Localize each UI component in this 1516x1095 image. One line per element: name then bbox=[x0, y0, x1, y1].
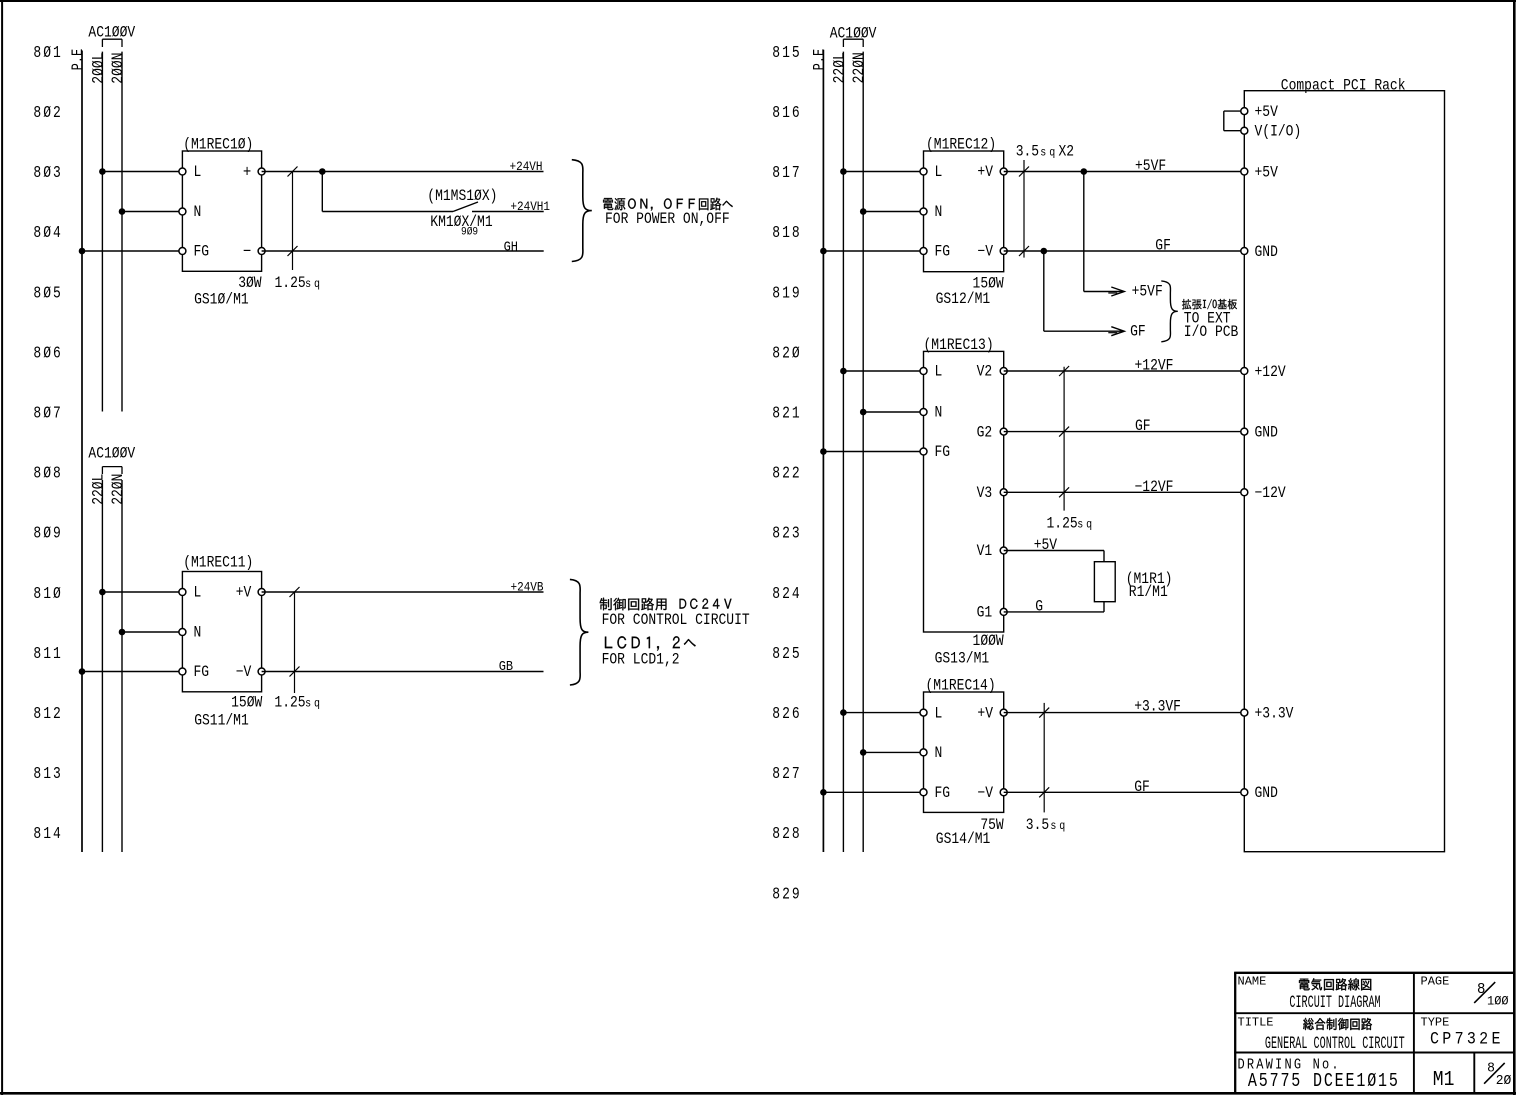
svg-text:sq: sq bbox=[305, 278, 323, 291]
svg-text:−12V: −12V bbox=[1255, 485, 1287, 502]
arrow +5VF to ext I/O bbox=[1084, 291, 1124, 293]
svg-text:+3.3V: +3.3V bbox=[1255, 705, 1294, 722]
brace power on/off bbox=[572, 160, 592, 262]
wire +5VF bbox=[1004, 171, 1245, 173]
wire FG M1REC13 bbox=[823, 451, 923, 453]
svg-text:GENERAL CONTROL CIRCUIT: GENERAL CONTROL CIRCUIT bbox=[1265, 1034, 1405, 1054]
svg-text:82Ø: 82Ø bbox=[772, 345, 801, 363]
resistor R1 body bbox=[1094, 562, 1115, 602]
terminal rack +5V bbox=[1241, 168, 1248, 175]
svg-text:PAGE: PAGE bbox=[1421, 975, 1450, 989]
wire +3.3VF bbox=[1004, 712, 1245, 714]
wire bus 200N bbox=[121, 52, 123, 412]
svg-text:GND: GND bbox=[1255, 424, 1278, 441]
terminal FG M1REC14 bbox=[920, 789, 927, 796]
svg-text:811: 811 bbox=[33, 646, 62, 664]
junction P.E-FG REC14 bbox=[820, 789, 827, 796]
rectifier GS14/M1 box bbox=[924, 692, 1004, 812]
terminal FG M1REC10 bbox=[179, 248, 186, 255]
terminal rack +5V (top) bbox=[1241, 108, 1248, 115]
terminal rack +3.3V bbox=[1241, 709, 1248, 716]
svg-text:AC1ØØV: AC1ØØV bbox=[88, 446, 135, 463]
junction 220N-N REC13 bbox=[860, 409, 867, 416]
wire FG M1REC10 bbox=[82, 250, 182, 252]
terminal rack GND (821) bbox=[1241, 428, 1248, 435]
terminal rack -12V bbox=[1241, 489, 1248, 496]
svg-text:+: + bbox=[243, 162, 251, 182]
wire bus P.E (left) bbox=[81, 51, 83, 853]
junction 200L-L bbox=[99, 168, 106, 175]
cable size line 1.25sq M1REC11 bbox=[290, 587, 300, 693]
wire L M1REC10 bbox=[102, 171, 182, 173]
svg-text:8Ø9: 8Ø9 bbox=[33, 526, 62, 544]
svg-text:819: 819 bbox=[772, 285, 801, 303]
svg-text:+24VH: +24VH bbox=[510, 159, 543, 174]
wire N M1REC14 bbox=[863, 751, 923, 753]
junction 220L-L REC14 bbox=[840, 709, 847, 716]
annotation JP DC24V bbox=[680, 599, 732, 609]
title JP circuit diagram name bbox=[1299, 978, 1371, 990]
svg-text:R1/M1: R1/M1 bbox=[1129, 584, 1168, 601]
svg-text:GF: GF bbox=[1130, 323, 1146, 340]
svg-text:+V: +V bbox=[977, 705, 993, 722]
svg-text:Compact PCI Rack: Compact PCI Rack bbox=[1281, 77, 1406, 94]
svg-text:FOR POWER ON,OFF: FOR POWER ON,OFF bbox=[605, 211, 730, 228]
svg-text:8Ø8: 8Ø8 bbox=[33, 465, 62, 483]
wire GF branch down bbox=[1043, 251, 1045, 331]
svg-text:N: N bbox=[194, 625, 202, 642]
svg-text:814: 814 bbox=[33, 826, 62, 844]
svg-text:TITLE: TITLE bbox=[1238, 1015, 1274, 1029]
wire +12VF bbox=[1004, 370, 1245, 372]
svg-text:L: L bbox=[935, 364, 943, 381]
wire GF row818 bbox=[1004, 250, 1245, 252]
cable size line 1.25sq M1REC10 bbox=[288, 167, 298, 271]
wire GB bbox=[262, 671, 544, 673]
svg-text:824: 824 bbox=[772, 586, 801, 604]
svg-text:818: 818 bbox=[772, 225, 801, 243]
junction P.E-FG REC13 bbox=[820, 448, 827, 455]
svg-text:FG: FG bbox=[194, 664, 210, 681]
jumper +5V to V(I/O) bbox=[1224, 111, 1245, 131]
svg-text:GH: GH bbox=[504, 239, 518, 255]
junction 220L-L REC13 bbox=[840, 368, 847, 375]
annotation JP control circuit DC24V bbox=[600, 598, 667, 611]
svg-text:8Ø3: 8Ø3 bbox=[33, 165, 62, 183]
svg-text:+5V: +5V bbox=[1255, 164, 1279, 181]
terminal L M1REC13 bbox=[920, 368, 927, 375]
svg-text:GF: GF bbox=[1135, 418, 1151, 435]
junction 220N-N REC11 bbox=[119, 629, 126, 636]
svg-text:816: 816 bbox=[772, 105, 801, 123]
switch M1MS10X contact bbox=[453, 202, 478, 212]
terminal -V M1REC14 bbox=[1000, 789, 1007, 796]
svg-text:1.25: 1.25 bbox=[275, 275, 306, 292]
terminal FG M1REC13 bbox=[920, 448, 927, 455]
wire -12VF bbox=[1004, 491, 1245, 493]
wire FG M1REC11 bbox=[82, 671, 182, 673]
title JP general control circuit bbox=[1303, 1018, 1372, 1030]
svg-text:sq: sq bbox=[305, 698, 323, 711]
wire bus 220N (right) bbox=[862, 52, 864, 852]
svg-text:L: L bbox=[935, 705, 943, 722]
page fraction slash bbox=[1474, 982, 1495, 1003]
junction P.E-FG REC12 bbox=[820, 248, 827, 255]
terminal rack GND (827) bbox=[1241, 789, 1248, 796]
brace ext I/O bbox=[1161, 281, 1178, 342]
terminal L M1REC11 bbox=[179, 589, 186, 596]
wire branch down to switch bbox=[321, 172, 323, 212]
svg-text:−V: −V bbox=[236, 664, 252, 681]
svg-text:2Ø: 2Ø bbox=[1496, 1074, 1512, 1089]
cable size line 3.5sqX2 bbox=[1019, 160, 1029, 258]
svg-text:−V: −V bbox=[977, 785, 993, 802]
svg-text:sq: sq bbox=[1040, 147, 1058, 160]
title block column divider (row 3a) bbox=[1413, 1053, 1415, 1094]
wire V1 +5V bbox=[1004, 550, 1104, 552]
svg-text:8Ø5: 8Ø5 bbox=[33, 285, 62, 303]
AC100V bracket (top left) bbox=[102, 39, 122, 47]
svg-text:1.25: 1.25 bbox=[1047, 515, 1078, 532]
title block column divider (rows 1-2) bbox=[1413, 972, 1415, 1052]
wire N M1REC13 bbox=[863, 411, 923, 413]
svg-text:8Ø1: 8Ø1 bbox=[33, 45, 62, 63]
svg-text:+5V: +5V bbox=[1255, 104, 1279, 121]
terminal -V M1REC11 bbox=[258, 668, 265, 675]
svg-text:N: N bbox=[935, 745, 943, 762]
wire N M1REC10 bbox=[122, 211, 182, 213]
svg-text:822: 822 bbox=[772, 465, 801, 483]
svg-text:L: L bbox=[935, 164, 943, 181]
wire +24VH1 bbox=[472, 211, 544, 213]
junction +24VH branch bbox=[319, 168, 326, 175]
terminal V1 M1REC13 bbox=[1000, 547, 1007, 554]
svg-text:V2: V2 bbox=[977, 364, 993, 381]
svg-text:TYPE: TYPE bbox=[1421, 1015, 1450, 1029]
title block outer box bbox=[1234, 972, 1514, 1093]
svg-text:GF: GF bbox=[1134, 779, 1150, 796]
svg-text:817: 817 bbox=[772, 165, 801, 183]
svg-text:15ØW: 15ØW bbox=[231, 694, 263, 711]
svg-text:1ØØ: 1ØØ bbox=[1487, 994, 1509, 1009]
svg-text:GF: GF bbox=[1155, 238, 1171, 255]
AC100V bracket (left second) bbox=[102, 467, 122, 474]
svg-text:813: 813 bbox=[33, 766, 62, 784]
svg-text:821: 821 bbox=[772, 405, 801, 423]
svg-text:+24VH1: +24VH1 bbox=[510, 199, 550, 214]
brace control circuit bbox=[570, 579, 589, 685]
terminal V3 M1REC13 bbox=[1000, 489, 1007, 496]
wire bus 200L bbox=[101, 52, 103, 412]
sheet fraction slash bbox=[1484, 1063, 1505, 1084]
svg-text:827: 827 bbox=[772, 766, 801, 784]
svg-text:−V: −V bbox=[977, 244, 993, 261]
svg-text:GND: GND bbox=[1255, 244, 1278, 261]
wire L M1REC11 bbox=[102, 591, 182, 593]
svg-text:P.E: P.E bbox=[70, 49, 88, 71]
junction 220L-L REC11 bbox=[99, 589, 106, 596]
wire L M1REC13 bbox=[843, 370, 923, 372]
svg-text:FOR LCD1,2: FOR LCD1,2 bbox=[602, 651, 680, 668]
svg-text:3.5: 3.5 bbox=[1016, 144, 1039, 161]
svg-text:GS1Ø/M1: GS1Ø/M1 bbox=[194, 292, 249, 309]
terminal N M1REC12 bbox=[920, 208, 927, 215]
svg-text:3ØW: 3ØW bbox=[238, 275, 262, 292]
junction 220N-N REC12 bbox=[860, 208, 867, 215]
cable size line 1.25sq M1REC13 bbox=[1059, 366, 1069, 511]
junction GF branch bbox=[1041, 248, 1048, 255]
AC100V bracket (right) bbox=[843, 39, 863, 47]
svg-text:22ØL: 22ØL bbox=[831, 52, 849, 83]
junction P.E-FG bbox=[79, 248, 86, 255]
svg-text:sq: sq bbox=[1050, 820, 1068, 833]
svg-text:8Ø7: 8Ø7 bbox=[33, 405, 62, 423]
svg-text:+5VF: +5VF bbox=[1132, 284, 1163, 301]
terminal +V M1REC14 bbox=[1000, 709, 1007, 716]
terminal L M1REC12 bbox=[920, 168, 927, 175]
wire bus 220L (right) bbox=[842, 52, 844, 852]
terminal L M1REC14 bbox=[920, 709, 927, 716]
svg-text:823: 823 bbox=[772, 526, 801, 544]
svg-text:N: N bbox=[935, 405, 943, 422]
svg-text:825: 825 bbox=[772, 646, 801, 664]
wire bus 220L (left) bbox=[101, 480, 103, 852]
svg-text:N: N bbox=[935, 204, 943, 221]
svg-text:M1: M1 bbox=[1433, 1067, 1455, 1092]
svg-text:829: 829 bbox=[772, 886, 801, 904]
terminal + M1REC10 bbox=[258, 168, 265, 175]
wire +5VF branch down bbox=[1083, 172, 1085, 292]
svg-text:−: − bbox=[243, 242, 251, 262]
svg-text:L: L bbox=[194, 585, 202, 602]
svg-text:G: G bbox=[1035, 599, 1043, 616]
svg-text:+12VF: +12VF bbox=[1135, 358, 1174, 375]
terminal +V M1REC12 bbox=[1000, 168, 1007, 175]
svg-text:+24VB: +24VB bbox=[511, 579, 544, 594]
svg-text:+12V: +12V bbox=[1255, 364, 1287, 381]
terminal N M1REC10 bbox=[179, 208, 186, 215]
rectifier GS13/M1 box bbox=[924, 351, 1004, 632]
terminal FG M1REC11 bbox=[179, 668, 186, 675]
title block column divider (row 3b) bbox=[1473, 1053, 1475, 1094]
terminal N M1REC14 bbox=[920, 749, 927, 756]
svg-text:GS12/M1: GS12/M1 bbox=[936, 291, 991, 308]
svg-text:GB: GB bbox=[499, 658, 514, 674]
svg-text:81Ø: 81Ø bbox=[33, 586, 62, 604]
wire resistor bottom lead bbox=[1103, 602, 1105, 612]
svg-text:+5V: +5V bbox=[1034, 537, 1058, 554]
svg-text:8Ø4: 8Ø4 bbox=[33, 225, 62, 243]
annotation JP LCD1,2 bbox=[605, 636, 696, 650]
wire +24VH bbox=[262, 171, 544, 173]
svg-text:FG: FG bbox=[935, 785, 951, 802]
wire FG M1REC12 bbox=[823, 250, 923, 252]
junction 220N-N REC14 bbox=[860, 749, 867, 756]
svg-text:22ØN: 22ØN bbox=[110, 474, 128, 505]
svg-text:V3: V3 bbox=[977, 485, 993, 502]
terminal - M1REC10 bbox=[258, 248, 265, 255]
rectifier GS12/M1 box bbox=[924, 151, 1004, 272]
svg-text:−12VF: −12VF bbox=[1135, 479, 1174, 496]
svg-text:A5775 DCEE1Ø15: A5775 DCEE1Ø15 bbox=[1248, 1072, 1400, 1093]
svg-text:815: 815 bbox=[772, 45, 801, 63]
svg-text:G1: G1 bbox=[977, 605, 993, 622]
svg-text:sq: sq bbox=[1077, 519, 1095, 532]
svg-text:GS13/M1: GS13/M1 bbox=[935, 650, 990, 667]
terminal V2 M1REC13 bbox=[1000, 368, 1007, 375]
cable size line 3.5sq M1REC14 bbox=[1039, 703, 1049, 813]
svg-text:FG: FG bbox=[935, 444, 951, 461]
wire resistor top lead bbox=[1103, 551, 1105, 562]
svg-text:+3.3VF: +3.3VF bbox=[1134, 699, 1181, 716]
junction P.E-FG REC11 bbox=[79, 668, 86, 675]
svg-text:GS11/M1: GS11/M1 bbox=[194, 712, 249, 729]
terminal N M1REC13 bbox=[920, 409, 927, 416]
svg-text:+V: +V bbox=[977, 164, 993, 181]
svg-text:L: L bbox=[194, 164, 202, 181]
svg-text:+5VF: +5VF bbox=[1135, 158, 1166, 175]
svg-text:1ØØW: 1ØØW bbox=[973, 633, 1005, 650]
svg-text:GND: GND bbox=[1255, 785, 1278, 802]
svg-text:FG: FG bbox=[935, 244, 951, 261]
svg-text:826: 826 bbox=[772, 706, 801, 724]
svg-text:3.5: 3.5 bbox=[1026, 817, 1049, 834]
svg-text:(M1REC11): (M1REC11) bbox=[183, 554, 253, 571]
svg-text:V1: V1 bbox=[977, 543, 993, 560]
svg-text:CP732E: CP732E bbox=[1430, 1028, 1504, 1049]
wire GH from - bbox=[262, 250, 544, 252]
wire GF row827 bbox=[1004, 791, 1245, 793]
terminal +V M1REC11 bbox=[258, 589, 265, 596]
svg-text:V(I/O): V(I/O) bbox=[1255, 124, 1302, 141]
svg-text:828: 828 bbox=[772, 826, 801, 844]
rectifier GS10/M1 box bbox=[182, 151, 261, 271]
svg-text:8Ø6: 8Ø6 bbox=[33, 345, 62, 363]
svg-text:22ØL: 22ØL bbox=[90, 474, 108, 505]
svg-text:2ØØL: 2ØØL bbox=[90, 53, 108, 84]
wire GF row821 bbox=[1004, 431, 1245, 433]
svg-text:812: 812 bbox=[33, 706, 62, 724]
svg-text:FOR CONTROL CIRCUIT: FOR CONTROL CIRCUIT bbox=[602, 612, 750, 629]
wire bus P.E (right) bbox=[822, 50, 824, 852]
terminal FG M1REC12 bbox=[920, 248, 927, 255]
junction +5VF branch bbox=[1081, 168, 1088, 175]
wire N M1REC12 bbox=[863, 211, 923, 213]
terminal rack V(I/O) bbox=[1241, 127, 1248, 134]
terminal L M1REC10 bbox=[179, 168, 186, 175]
terminal -V M1REC12 bbox=[1000, 248, 1007, 255]
terminal N M1REC11 bbox=[179, 629, 186, 636]
wire G1 G bbox=[1004, 611, 1104, 613]
svg-text:P.E: P.E bbox=[811, 49, 829, 71]
terminal rack +12V bbox=[1241, 368, 1248, 375]
wire FG M1REC14 bbox=[823, 791, 923, 793]
svg-text:1.25: 1.25 bbox=[274, 694, 305, 711]
svg-text:8Ø2: 8Ø2 bbox=[33, 105, 62, 123]
terminal G2 M1REC13 bbox=[1000, 428, 1007, 435]
svg-text:X2: X2 bbox=[1059, 144, 1075, 161]
junction 220L-L REC12 bbox=[840, 168, 847, 175]
svg-text:GS14/M1: GS14/M1 bbox=[936, 831, 991, 848]
svg-text:FG: FG bbox=[194, 244, 210, 261]
svg-text:+V: +V bbox=[236, 585, 252, 602]
rectifier GS11/M1 box bbox=[182, 572, 261, 692]
annotation JP power ON/OFF bbox=[603, 198, 733, 211]
arrow GF to ext I/O bbox=[1044, 330, 1124, 332]
svg-text:I/O PCB: I/O PCB bbox=[1184, 324, 1239, 341]
wire L M1REC12 bbox=[843, 171, 923, 173]
terminal G1 M1REC13 bbox=[1000, 608, 1007, 615]
svg-text:9Ø9: 9Ø9 bbox=[461, 226, 478, 239]
svg-text:NAME: NAME bbox=[1238, 975, 1267, 989]
wire switch feed bbox=[322, 211, 453, 213]
svg-text:N: N bbox=[194, 204, 202, 221]
svg-text:2ØØN: 2ØØN bbox=[110, 53, 128, 84]
svg-text:CIRCUIT DIAGRAM: CIRCUIT DIAGRAM bbox=[1289, 993, 1380, 1013]
annotation JP ext I/O board bbox=[1182, 299, 1237, 309]
wire L M1REC14 bbox=[843, 712, 923, 714]
terminal rack GND (818) bbox=[1241, 248, 1248, 255]
svg-text:AC1ØØV: AC1ØØV bbox=[830, 25, 877, 42]
svg-text:22ØN: 22ØN bbox=[851, 52, 869, 83]
title block row divider 1 bbox=[1234, 1012, 1514, 1014]
svg-text:G2: G2 bbox=[977, 424, 993, 441]
junction 200N-N bbox=[119, 208, 126, 215]
wire N M1REC11 bbox=[122, 631, 182, 633]
wire bus 220N (left) bbox=[121, 480, 123, 852]
Compact PCI Rack box bbox=[1244, 91, 1444, 852]
wire +24VB bbox=[262, 591, 544, 593]
svg-text:(M1MS1ØX): (M1MS1ØX) bbox=[427, 188, 497, 205]
title block row divider 2 bbox=[1234, 1052, 1514, 1054]
